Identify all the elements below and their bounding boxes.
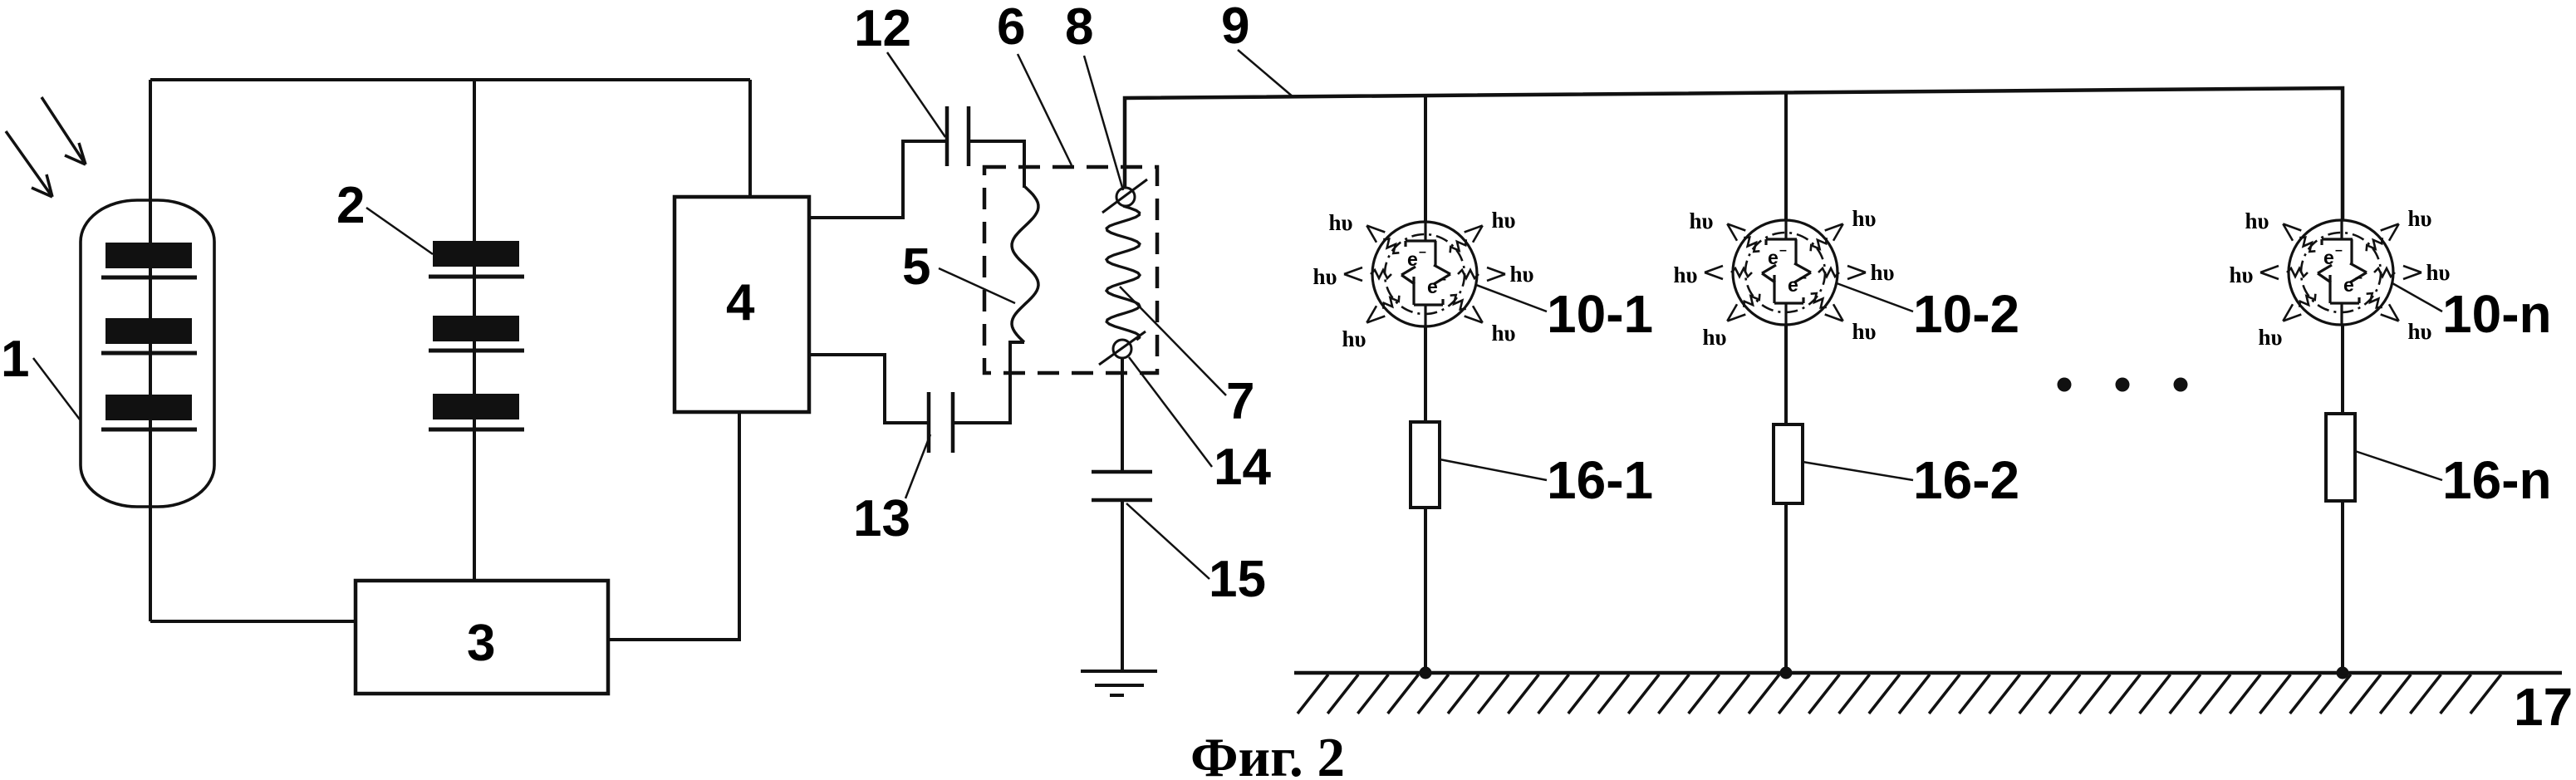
photon emitter 10-n — [2229, 206, 2450, 350]
svg-text:16-n: 16-n — [2442, 450, 2552, 510]
branch wire 10-n top — [2341, 88, 2344, 220]
resistor 16-2 — [1774, 424, 1803, 503]
wire 10-2 to resistor — [1784, 325, 1788, 673]
wire: top to block 4 — [748, 80, 752, 197]
svg-text:16-1: 16-1 — [1547, 450, 1653, 510]
capacitor 15 — [1092, 470, 1152, 474]
svg-text:14: 14 — [1214, 439, 1271, 496]
ground plane 17 — [1294, 671, 2562, 675]
dashed resonant block 6 — [984, 167, 1157, 373]
svg-text:16-2: 16-2 — [1913, 450, 2019, 510]
resistor 16-1 — [1411, 422, 1440, 508]
svg-text:10-2: 10-2 — [1913, 284, 2019, 344]
svg-text:4: 4 — [726, 274, 755, 331]
svg-text:5: 5 — [902, 238, 930, 296]
wire 10-n to resistor — [2341, 325, 2344, 673]
branch wire 10-1 top — [1424, 96, 1427, 222]
svg-text:8: 8 — [1065, 0, 1093, 56]
svg-text:9: 9 — [1221, 0, 1249, 55]
wire: block 4 bottom to block 3 — [608, 412, 739, 640]
secondary coil 7 — [1106, 206, 1140, 340]
ground symbol — [1081, 670, 1157, 673]
photocell cylinder 1 — [81, 200, 214, 507]
wire: capacitor 13 to coil 5 bottom — [953, 342, 1024, 423]
capacitor 12 — [945, 106, 949, 166]
wire: left vertical through cell 1 — [149, 80, 152, 621]
junction dot 10-1 — [1420, 667, 1432, 679]
svg-text:10-n: 10-n — [2442, 284, 2552, 344]
ellipsis dots — [2058, 378, 2072, 392]
svg-text:1: 1 — [1, 331, 29, 388]
svg-text:7: 7 — [1226, 373, 1254, 430]
branch wire 10-2 top — [1784, 93, 1788, 220]
wire: bottom left to block 3 — [150, 620, 356, 623]
svg-text:15: 15 — [1209, 551, 1266, 608]
svg-text:6: 6 — [997, 0, 1025, 56]
wire: terminal 14 to capacitor 15 — [1121, 358, 1124, 472]
wire: capacitor 15 to ground — [1121, 500, 1124, 671]
wire: capacitor 12 to coil 5 — [969, 141, 1024, 188]
svg-text:12: 12 — [854, 0, 911, 57]
junction dot 10-n — [2337, 667, 2349, 679]
svg-text:13: 13 — [853, 490, 910, 547]
svg-text:17: 17 — [2514, 677, 2573, 737]
cell plates of 1 — [101, 243, 197, 429]
capacitor bank 2 — [429, 241, 524, 429]
light ray arrows — [6, 97, 86, 197]
terminal 14 (slashed circle) — [1113, 340, 1131, 358]
resistor 16-n — [2326, 414, 2355, 501]
wire: block4 upper stub to capacitor 12 — [809, 141, 947, 218]
svg-text:10-1: 10-1 — [1547, 284, 1653, 344]
wire: capacitor bank 2 drop — [473, 79, 476, 581]
wire 9: coil top to bus — [1125, 88, 2343, 220]
wire 10-1 to resistor — [1424, 326, 1427, 673]
photon emitter 10-2 — [1673, 206, 1894, 350]
wire: top left horizontal — [150, 78, 750, 81]
junction dot 10-2 — [1780, 667, 1793, 679]
svg-text:2: 2 — [336, 177, 365, 234]
wire: block4 lower stub to capacitor 13 — [809, 355, 929, 423]
transformer primary coil 5 — [1012, 187, 1038, 342]
svg-text:3: 3 — [467, 615, 495, 672]
block 3 — [356, 581, 608, 694]
photon emitter 10-1 — [1313, 208, 1533, 351]
capacitor 13 — [927, 392, 931, 453]
terminal 8 (slashed circle) — [1116, 188, 1135, 206]
svg-text:Фиг. 2: Фиг. 2 — [1190, 727, 1345, 780]
